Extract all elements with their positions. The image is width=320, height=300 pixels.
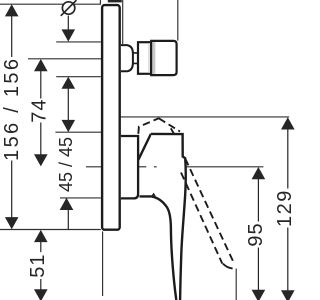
extension line lever top (129 ref): [103, 116, 289, 118]
lever parting tick: [152, 194, 155, 197]
svg-text:129: 129: [274, 189, 296, 227]
dimension 74: [40, 71, 42, 156]
dimension diameter knob: [67, 16, 69, 230]
open lever dashed shaft left: [181, 173, 222, 264]
wall plate escutcheon: [102, 5, 120, 230]
dimension 156/156: [11, 16, 13, 218]
dimension 129: [287, 129, 289, 290]
dimension 95: [257, 179, 259, 290]
extension line plate front top stub: [122, 0, 124, 44]
knob neck: [133, 53, 138, 64]
open lever dashed front top: [159, 118, 180, 131]
extension line knob face top stub: [177, 0, 179, 41]
svg-text:95: 95: [245, 222, 267, 246]
knob cone: [121, 45, 133, 71]
svg-text:156 / 156: 156 / 156: [1, 57, 23, 161]
extension line 45 upper: [55, 131, 103, 133]
cartridge sleeve: [121, 136, 138, 198]
center line knob axis: [28, 58, 130, 60]
extension line wall top stub: [99, 0, 101, 4]
knob collar: [138, 42, 151, 74]
open lever dashed shaft right: [185, 159, 233, 262]
extension line knob top: [56, 41, 101, 43]
knob body: [151, 41, 176, 75]
extension line below plate: [102, 232, 104, 297]
dimension 45/45 arrows: [62, 120, 76, 132]
extension line top of plate: [0, 3, 101, 5]
extension line plate bottom: [0, 229, 101, 231]
collar shading: [148, 43, 150, 72]
extension line knob bottom: [56, 76, 101, 78]
knob shading: [152, 42, 155, 74]
svg-text:74: 74: [29, 98, 51, 122]
cropped dimension mark above plate: [108, 0, 122, 2]
svg-text:51: 51: [27, 253, 49, 277]
dimension 51: [40, 242, 42, 290]
lever head and front edge: [151, 134, 186, 300]
open lever dashed rear: [138, 118, 159, 134]
extension line below lever tip: [235, 269, 237, 300]
lever rear handle edge: [140, 196, 177, 300]
open lever dashed tip cap: [223, 264, 233, 269]
center line lever axis: [86, 166, 115, 168]
lever rear slant: [138, 134, 151, 160]
svg-text:45 / 45: 45 / 45: [56, 137, 76, 192]
extension line 45 lower: [60, 197, 101, 199]
open lever dashed inner tick: [171, 128, 175, 134]
diameter symbol: [62, 2, 74, 14]
